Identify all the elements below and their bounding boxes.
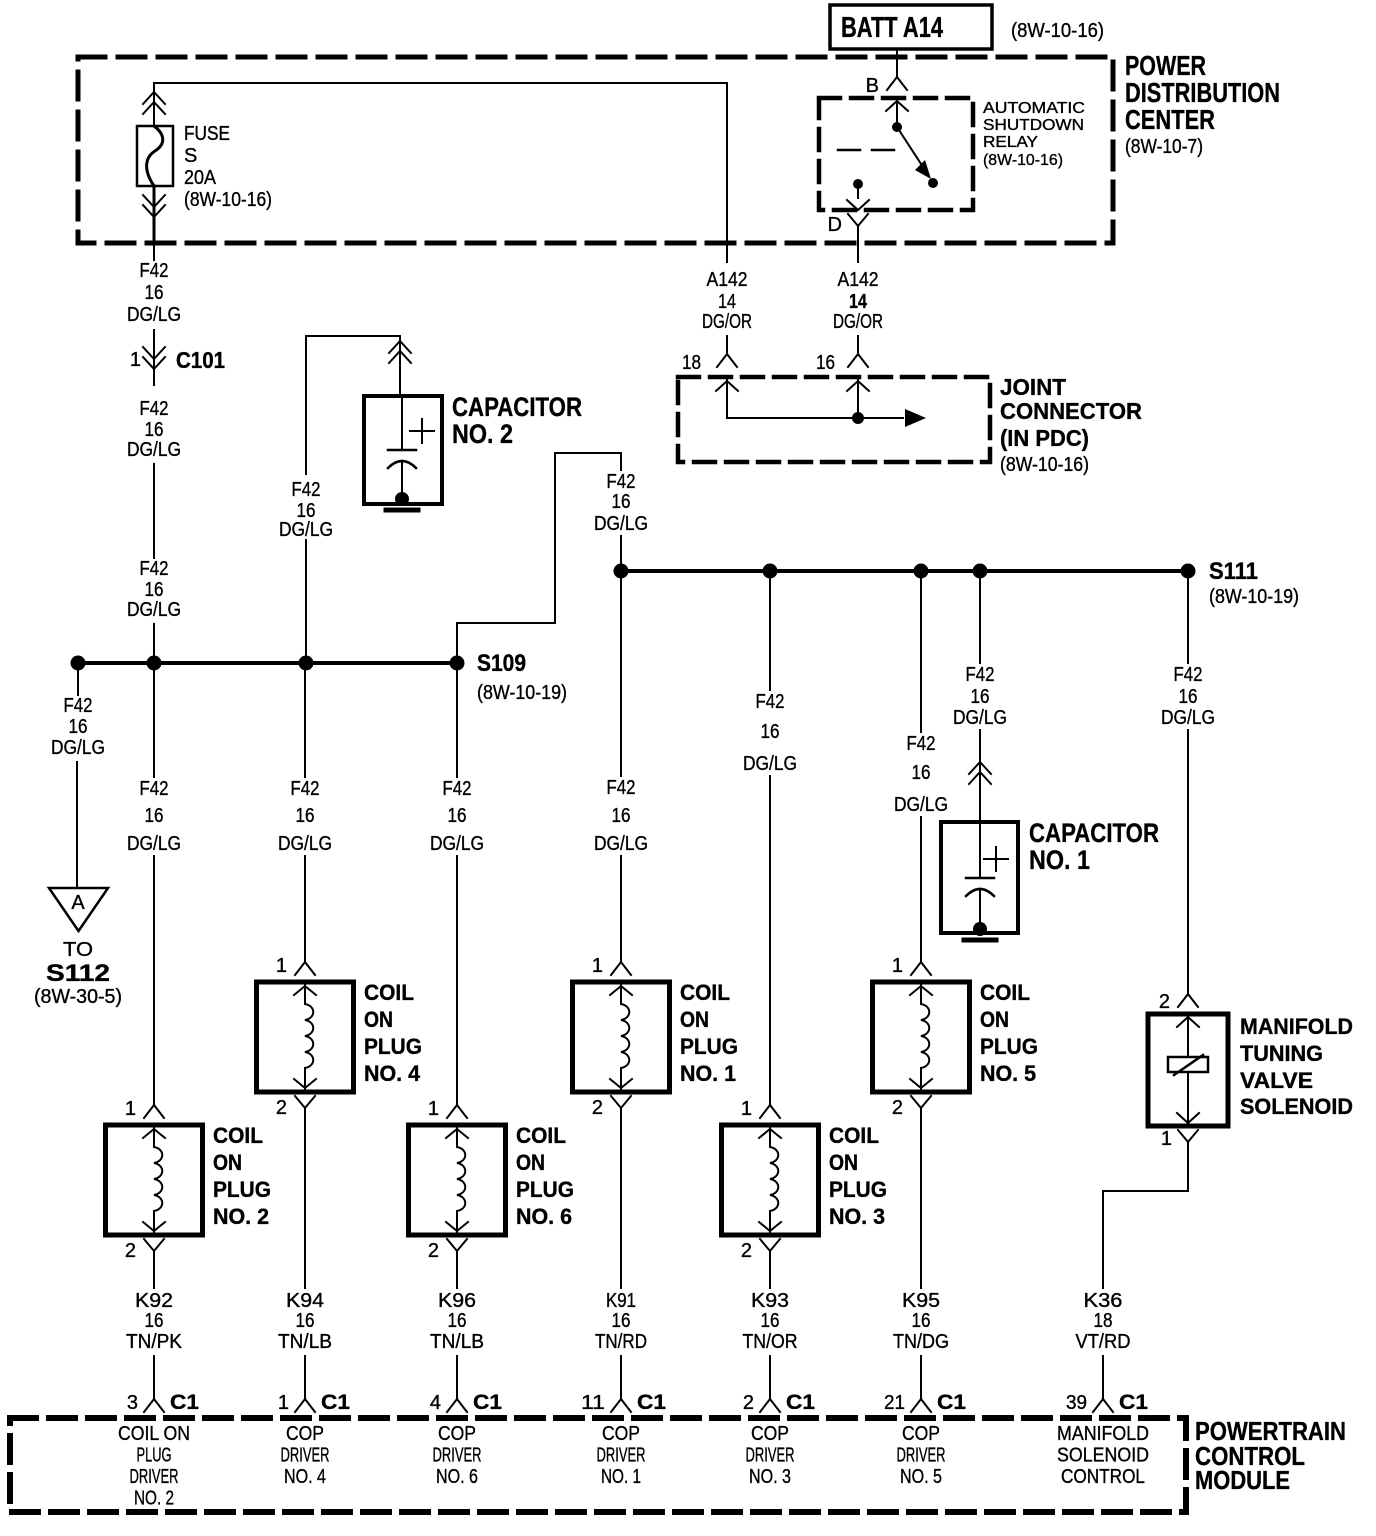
- power distribution center dashed box: [78, 57, 1113, 243]
- relay pin D connector: [828, 214, 868, 243]
- svg-text:CONNECTOR: CONNECTOR: [1000, 398, 1142, 424]
- svg-text:16: 16: [448, 1310, 467, 1332]
- svg-text:F42: F42: [443, 778, 472, 800]
- label: POWER DISTRIBUTION CENTER: [1125, 50, 1280, 158]
- svg-text:D: D: [828, 214, 842, 236]
- wire from coil no. 4 pin 2: [304, 1120, 306, 1288]
- svg-text:TN/PK: TN/PK: [126, 1331, 183, 1353]
- svg-text:PLUG: PLUG: [516, 1177, 574, 1202]
- svg-text:C1: C1: [937, 1391, 966, 1414]
- svg-text:PLUG: PLUG: [980, 1034, 1038, 1059]
- svg-text:COIL: COIL: [829, 1123, 879, 1148]
- svg-text:(8W-10-16): (8W-10-16): [184, 189, 272, 211]
- svg-text:K36: K36: [1084, 1290, 1123, 1312]
- svg-text:16: 16: [145, 1310, 164, 1332]
- svg-text:NO. 2: NO. 2: [134, 1488, 174, 1510]
- svg-text:DG/LG: DG/LG: [278, 833, 332, 855]
- svg-text:(8W-10-19): (8W-10-19): [1209, 586, 1299, 608]
- svg-text:C101: C101: [176, 347, 225, 373]
- svg-text:DG/LG: DG/LG: [894, 794, 948, 816]
- svg-text:4: 4: [430, 1392, 441, 1414]
- svg-text:MANIFOLD: MANIFOLD: [1057, 1423, 1149, 1445]
- wire F42 16 DG/LG to coil no. 3: [740, 571, 800, 1105]
- svg-text:DG/LG: DG/LG: [51, 737, 105, 759]
- svg-text:14: 14: [849, 291, 868, 313]
- svg-text:PLUG: PLUG: [364, 1034, 422, 1059]
- svg-text:1: 1: [276, 955, 287, 977]
- wire F42 16 DG/LG to coil no. 5: [891, 571, 951, 962]
- svg-text:C1: C1: [786, 1391, 815, 1414]
- label: wire K95 16 TN/DG: [893, 1290, 949, 1399]
- svg-text:1: 1: [1161, 1128, 1172, 1150]
- wire A142 14 DG/OR left (fuse feed drop): [702, 83, 752, 352]
- svg-text:16: 16: [612, 491, 631, 513]
- svg-text:S112: S112: [46, 960, 110, 987]
- svg-text:ON: ON: [980, 1007, 1009, 1032]
- svg-text:K94: K94: [286, 1290, 324, 1312]
- svg-text:C1: C1: [170, 1391, 199, 1414]
- capacitor no. 2: [364, 392, 582, 510]
- label: wire K93 16 TN/OR: [743, 1290, 798, 1399]
- svg-text:CENTER: CENTER: [1125, 104, 1215, 135]
- svg-text:F42: F42: [291, 778, 320, 800]
- svg-text:NO. 3: NO. 3: [749, 1466, 791, 1488]
- label: POWERTRAIN CONTROL MODULE: [1195, 1416, 1346, 1495]
- svg-text:16: 16: [145, 579, 164, 601]
- label: PCM COP DRIVER NO. 4: [281, 1423, 330, 1488]
- svg-text:(8W-10-16): (8W-10-16): [1000, 454, 1089, 476]
- svg-text:DG/LG: DG/LG: [594, 833, 648, 855]
- svg-text:DRIVER: DRIVER: [746, 1445, 795, 1467]
- svg-text:3: 3: [127, 1392, 138, 1414]
- svg-text:TN/LB: TN/LB: [430, 1331, 484, 1353]
- label: wire K36 18 VT/RD: [1076, 1290, 1131, 1399]
- svg-text:DRIVER: DRIVER: [281, 1445, 330, 1467]
- svg-text:C1: C1: [1119, 1391, 1148, 1414]
- wire from coil no. 5 pin 2: [920, 1120, 922, 1288]
- svg-text:DG/OR: DG/OR: [702, 311, 752, 333]
- label: JOINT CONNECTOR (IN PDC): [1000, 374, 1142, 476]
- svg-text:F42: F42: [140, 260, 169, 282]
- powertrain control module dashed box: [10, 1418, 1186, 1512]
- svg-text:1: 1: [741, 1098, 752, 1120]
- svg-text:S: S: [184, 145, 197, 167]
- svg-text:DG/LG: DG/LG: [743, 753, 797, 775]
- connector C1 pin 21 (PCM): [884, 1391, 966, 1414]
- svg-text:ON: ON: [516, 1150, 545, 1175]
- svg-text:COIL ON: COIL ON: [118, 1423, 190, 1445]
- svg-text:NO. 1: NO. 1: [680, 1061, 736, 1086]
- svg-text:16: 16: [296, 1310, 315, 1332]
- svg-text:COIL: COIL: [213, 1123, 263, 1148]
- connector C1 pin 2 (PCM): [743, 1391, 815, 1414]
- svg-text:PLUG: PLUG: [213, 1177, 271, 1202]
- capacitor no. 1: [941, 818, 1159, 940]
- svg-text:F42: F42: [140, 778, 169, 800]
- svg-text:COP: COP: [602, 1423, 640, 1445]
- svg-text:S111: S111: [1209, 558, 1258, 585]
- svg-text:2: 2: [592, 1097, 603, 1119]
- svg-text:BATT A14: BATT A14: [841, 12, 943, 44]
- svg-text:(8W-10-19): (8W-10-19): [477, 682, 567, 704]
- svg-text:2: 2: [1159, 991, 1170, 1013]
- svg-text:K95: K95: [902, 1290, 940, 1312]
- wire: top feed from fuse to A142 drop: [154, 82, 727, 84]
- wire from coil no. 3 pin 2: [769, 1263, 771, 1288]
- svg-text:1: 1: [278, 1392, 289, 1414]
- coil on plug no. 6: [409, 1098, 575, 1263]
- svg-text:PLUG: PLUG: [680, 1034, 738, 1059]
- svg-text:16: 16: [612, 805, 631, 827]
- svg-text:VT/RD: VT/RD: [1076, 1331, 1131, 1353]
- svg-text:SHUTDOWN: SHUTDOWN: [983, 117, 1084, 134]
- svg-text:18: 18: [682, 352, 701, 374]
- svg-text:2: 2: [743, 1392, 754, 1414]
- svg-text:16: 16: [145, 805, 164, 827]
- connector C1 pin 3 (PCM): [127, 1391, 199, 1414]
- svg-text:NO. 2: NO. 2: [213, 1204, 269, 1229]
- BATT A14 feed box: [830, 5, 992, 49]
- svg-text:COP: COP: [438, 1423, 476, 1445]
- svg-text:F42: F42: [140, 558, 169, 580]
- label: PCM COP DRIVER NO. 5: [897, 1423, 946, 1488]
- coil on plug no. 3: [722, 1098, 888, 1263]
- svg-text:1: 1: [428, 1098, 439, 1120]
- svg-text:VALVE: VALVE: [1240, 1068, 1313, 1093]
- svg-text:TO: TO: [63, 939, 93, 961]
- wire: BATT A14 to relay pin B: [896, 49, 898, 77]
- wire F42 16 DG/LG to coil no. 6: [427, 663, 487, 1105]
- svg-text:1: 1: [892, 955, 903, 977]
- svg-text:PLUG: PLUG: [829, 1177, 887, 1202]
- label: wire K91 16 TN/RD: [595, 1290, 647, 1399]
- svg-text:NO. 4: NO. 4: [364, 1061, 421, 1086]
- svg-text:MODULE: MODULE: [1195, 1465, 1290, 1495]
- svg-text:ON: ON: [829, 1150, 858, 1175]
- svg-text:FUSE: FUSE: [184, 123, 230, 145]
- svg-text:DG/LG: DG/LG: [127, 833, 181, 855]
- svg-text:TN/LB: TN/LB: [278, 1331, 332, 1353]
- svg-text:NO. 3: NO. 3: [829, 1204, 885, 1229]
- label: PCM COP DRIVER NO. 6: [433, 1423, 482, 1488]
- svg-text:C1: C1: [637, 1391, 666, 1414]
- svg-text:NO. 1: NO. 1: [601, 1466, 641, 1488]
- svg-text:F42: F42: [140, 398, 169, 420]
- svg-text:DRIVER: DRIVER: [433, 1445, 482, 1467]
- splice bus S109: [71, 650, 568, 704]
- svg-text:16: 16: [69, 716, 88, 738]
- svg-text:NO. 5: NO. 5: [980, 1061, 1036, 1086]
- svg-text:(IN PDC): (IN PDC): [1000, 425, 1089, 451]
- svg-text:20A: 20A: [184, 167, 217, 189]
- label: PCM COIL ON PLUG DRIVER NO. 2: [118, 1423, 190, 1510]
- svg-text:SOLENOID: SOLENOID: [1240, 1094, 1353, 1119]
- wire from coil no. 6 pin 2: [456, 1263, 458, 1288]
- svg-text:16: 16: [1179, 686, 1198, 708]
- svg-text:F42: F42: [607, 777, 636, 799]
- svg-text:DRIVER: DRIVER: [897, 1445, 946, 1467]
- svg-text:COP: COP: [286, 1423, 324, 1445]
- svg-text:F42: F42: [292, 479, 321, 501]
- svg-text:ON: ON: [680, 1007, 709, 1032]
- svg-text:JOINT: JOINT: [1000, 374, 1066, 400]
- svg-text:AUTOMATIC: AUTOMATIC: [983, 100, 1085, 117]
- svg-text:16: 16: [448, 805, 467, 827]
- label: PCM COP DRIVER NO. 1: [597, 1423, 646, 1488]
- svg-text:16: 16: [971, 686, 990, 708]
- svg-text:NO. 6: NO. 6: [436, 1466, 478, 1488]
- svg-text:1: 1: [130, 349, 141, 371]
- svg-text:F42: F42: [966, 664, 995, 686]
- svg-text:1: 1: [592, 955, 603, 977]
- svg-text:2: 2: [428, 1240, 439, 1262]
- svg-text:F42: F42: [756, 691, 785, 713]
- svg-text:DRIVER: DRIVER: [130, 1466, 179, 1488]
- svg-text:(8W-10-7): (8W-10-7): [1125, 136, 1203, 158]
- svg-text:COP: COP: [751, 1423, 789, 1445]
- svg-text:CAPACITOR: CAPACITOR: [1029, 818, 1159, 848]
- coil on plug no. 1: [573, 955, 739, 1120]
- svg-text:2: 2: [741, 1240, 752, 1262]
- label: wire K92 16 TN/PK: [126, 1290, 183, 1399]
- wire F42 16 DG/LG to coil no. 2: [124, 663, 184, 1105]
- svg-text:1: 1: [125, 1098, 136, 1120]
- svg-text:COIL: COIL: [516, 1123, 566, 1148]
- svg-text:DG/LG: DG/LG: [594, 513, 648, 535]
- svg-text:TN/DG: TN/DG: [893, 1331, 949, 1353]
- svg-text:NO. 5: NO. 5: [900, 1466, 942, 1488]
- svg-text:DG/LG: DG/LG: [430, 833, 484, 855]
- connector C101: [130, 344, 225, 385]
- coil on plug no. 4: [257, 955, 423, 1120]
- svg-text:COIL: COIL: [680, 980, 730, 1005]
- automatic shutdown relay: [819, 98, 1085, 210]
- svg-text:DG/OR: DG/OR: [833, 311, 883, 333]
- label: wire K94 16 TN/LB: [278, 1290, 332, 1399]
- svg-text:16: 16: [816, 352, 835, 374]
- svg-text:DG/LG: DG/LG: [953, 707, 1007, 729]
- coil on plug no. 2: [106, 1098, 272, 1263]
- off-page reference A to S112: [34, 888, 122, 1008]
- svg-text:16: 16: [912, 762, 931, 784]
- fuse S 20A in PDC: [137, 83, 272, 243]
- label: PCM MANIFOLD SOLENOID CONTROL: [1057, 1423, 1149, 1488]
- svg-text:B: B: [866, 75, 879, 97]
- wire F42 16 DG/LG below C101: [127, 398, 181, 558]
- svg-text:DG/LG: DG/LG: [127, 439, 181, 461]
- svg-text:(8W-30-5): (8W-30-5): [34, 986, 122, 1008]
- svg-text:COIL: COIL: [364, 980, 414, 1005]
- svg-text:TN/RD: TN/RD: [595, 1331, 647, 1353]
- svg-text:(8W-10-16): (8W-10-16): [1011, 20, 1104, 42]
- svg-text:F42: F42: [1174, 664, 1203, 686]
- wire F42 16 DG/LG from PDC to C101: [127, 243, 181, 344]
- wire to S112 (triangle A): [51, 669, 105, 886]
- svg-text:TN/OR: TN/OR: [743, 1331, 798, 1353]
- svg-text:TUNING: TUNING: [1240, 1041, 1323, 1066]
- svg-text:NO. 1: NO. 1: [1029, 845, 1090, 875]
- svg-text:MANIFOLD: MANIFOLD: [1240, 1014, 1353, 1039]
- label: PCM COP DRIVER NO. 3: [746, 1423, 795, 1488]
- wire from coil no. 1 pin 2: [620, 1120, 622, 1288]
- connector C1 pin 1 (PCM): [278, 1391, 350, 1414]
- svg-text:16: 16: [612, 1310, 631, 1332]
- svg-text:A142: A142: [707, 269, 748, 291]
- svg-text:DG/LG: DG/LG: [1161, 707, 1215, 729]
- svg-text:K92: K92: [135, 1290, 173, 1312]
- svg-text:C1: C1: [473, 1391, 502, 1414]
- wire F42 16 DG/LG to capacitor no. 1: [950, 571, 1010, 822]
- wire F42 16 DG/LG above S109: [127, 558, 181, 663]
- coil on plug no. 5: [873, 955, 1039, 1120]
- svg-text:K93: K93: [751, 1290, 789, 1312]
- svg-text:2: 2: [892, 1097, 903, 1119]
- wire from S109 to S111: [457, 453, 651, 663]
- wire K36 18 VT/RD jog: [1103, 1152, 1188, 1288]
- svg-text:16: 16: [761, 721, 780, 743]
- svg-text:DG/LG: DG/LG: [127, 599, 181, 621]
- svg-text:C1: C1: [321, 1391, 350, 1414]
- wire from coil no. 2 pin 2: [153, 1263, 155, 1288]
- joint connector (in PDC): [678, 352, 990, 462]
- label: wire K96 16 TN/LB: [430, 1290, 484, 1399]
- connector C1 pin 4 (PCM): [430, 1391, 502, 1414]
- connector C1 pin 11 (PCM): [581, 1391, 666, 1414]
- svg-text:NO. 2: NO. 2: [452, 419, 513, 449]
- svg-text:CAPACITOR: CAPACITOR: [452, 392, 582, 422]
- svg-text:NO. 4: NO. 4: [284, 1466, 326, 1488]
- svg-text:COIL: COIL: [980, 980, 1030, 1005]
- svg-text:ON: ON: [213, 1150, 242, 1175]
- svg-text:(8W-10-16): (8W-10-16): [983, 152, 1063, 169]
- svg-text:16: 16: [912, 1310, 931, 1332]
- svg-text:DG/LG: DG/LG: [279, 519, 333, 541]
- svg-text:DRIVER: DRIVER: [597, 1445, 646, 1467]
- svg-text:14: 14: [718, 291, 736, 313]
- svg-text:A: A: [71, 892, 85, 914]
- svg-text:21: 21: [884, 1392, 905, 1414]
- connector C1 pin 39 (PCM): [1066, 1391, 1148, 1414]
- svg-text:K91: K91: [606, 1290, 636, 1312]
- svg-text:NO. 6: NO. 6: [516, 1204, 572, 1229]
- svg-text:S109: S109: [477, 650, 526, 677]
- svg-text:ON: ON: [364, 1007, 393, 1032]
- splice bus S111: [614, 558, 1300, 608]
- svg-text:F42: F42: [64, 695, 93, 717]
- svg-text:16: 16: [145, 282, 164, 304]
- svg-text:2: 2: [276, 1097, 287, 1119]
- svg-text:PLUG: PLUG: [137, 1445, 172, 1467]
- svg-text:SOLENOID: SOLENOID: [1057, 1445, 1149, 1467]
- svg-text:11: 11: [581, 1392, 605, 1414]
- svg-text:2: 2: [125, 1240, 136, 1262]
- svg-text:CONTROL: CONTROL: [1061, 1466, 1145, 1488]
- svg-text:DG/LG: DG/LG: [127, 304, 181, 326]
- svg-text:COP: COP: [902, 1423, 940, 1445]
- svg-text:F42: F42: [607, 471, 636, 493]
- wire A142 14 DG/OR right (relay output): [833, 243, 883, 352]
- manifold tuning valve solenoid: [1148, 991, 1353, 1152]
- svg-text:K96: K96: [438, 1290, 476, 1312]
- svg-text:18: 18: [1094, 1310, 1113, 1332]
- capacitor no. 2 riser wire: [279, 336, 411, 663]
- svg-text:A142: A142: [838, 269, 879, 291]
- svg-text:16: 16: [296, 805, 315, 827]
- svg-text:39: 39: [1066, 1392, 1087, 1414]
- relay pin B connector: [866, 75, 907, 97]
- svg-text:RELAY: RELAY: [983, 134, 1038, 151]
- svg-text:16: 16: [145, 419, 164, 441]
- svg-text:F42: F42: [907, 733, 936, 755]
- wire F42 16 DG/LG to coil no. 4: [275, 663, 335, 962]
- wire F42 16 DG/LG to manifold tuning valve solenoid: [1158, 571, 1218, 994]
- svg-text:16: 16: [761, 1310, 780, 1332]
- wire F42 16 DG/LG to coil no. 1: [591, 571, 651, 962]
